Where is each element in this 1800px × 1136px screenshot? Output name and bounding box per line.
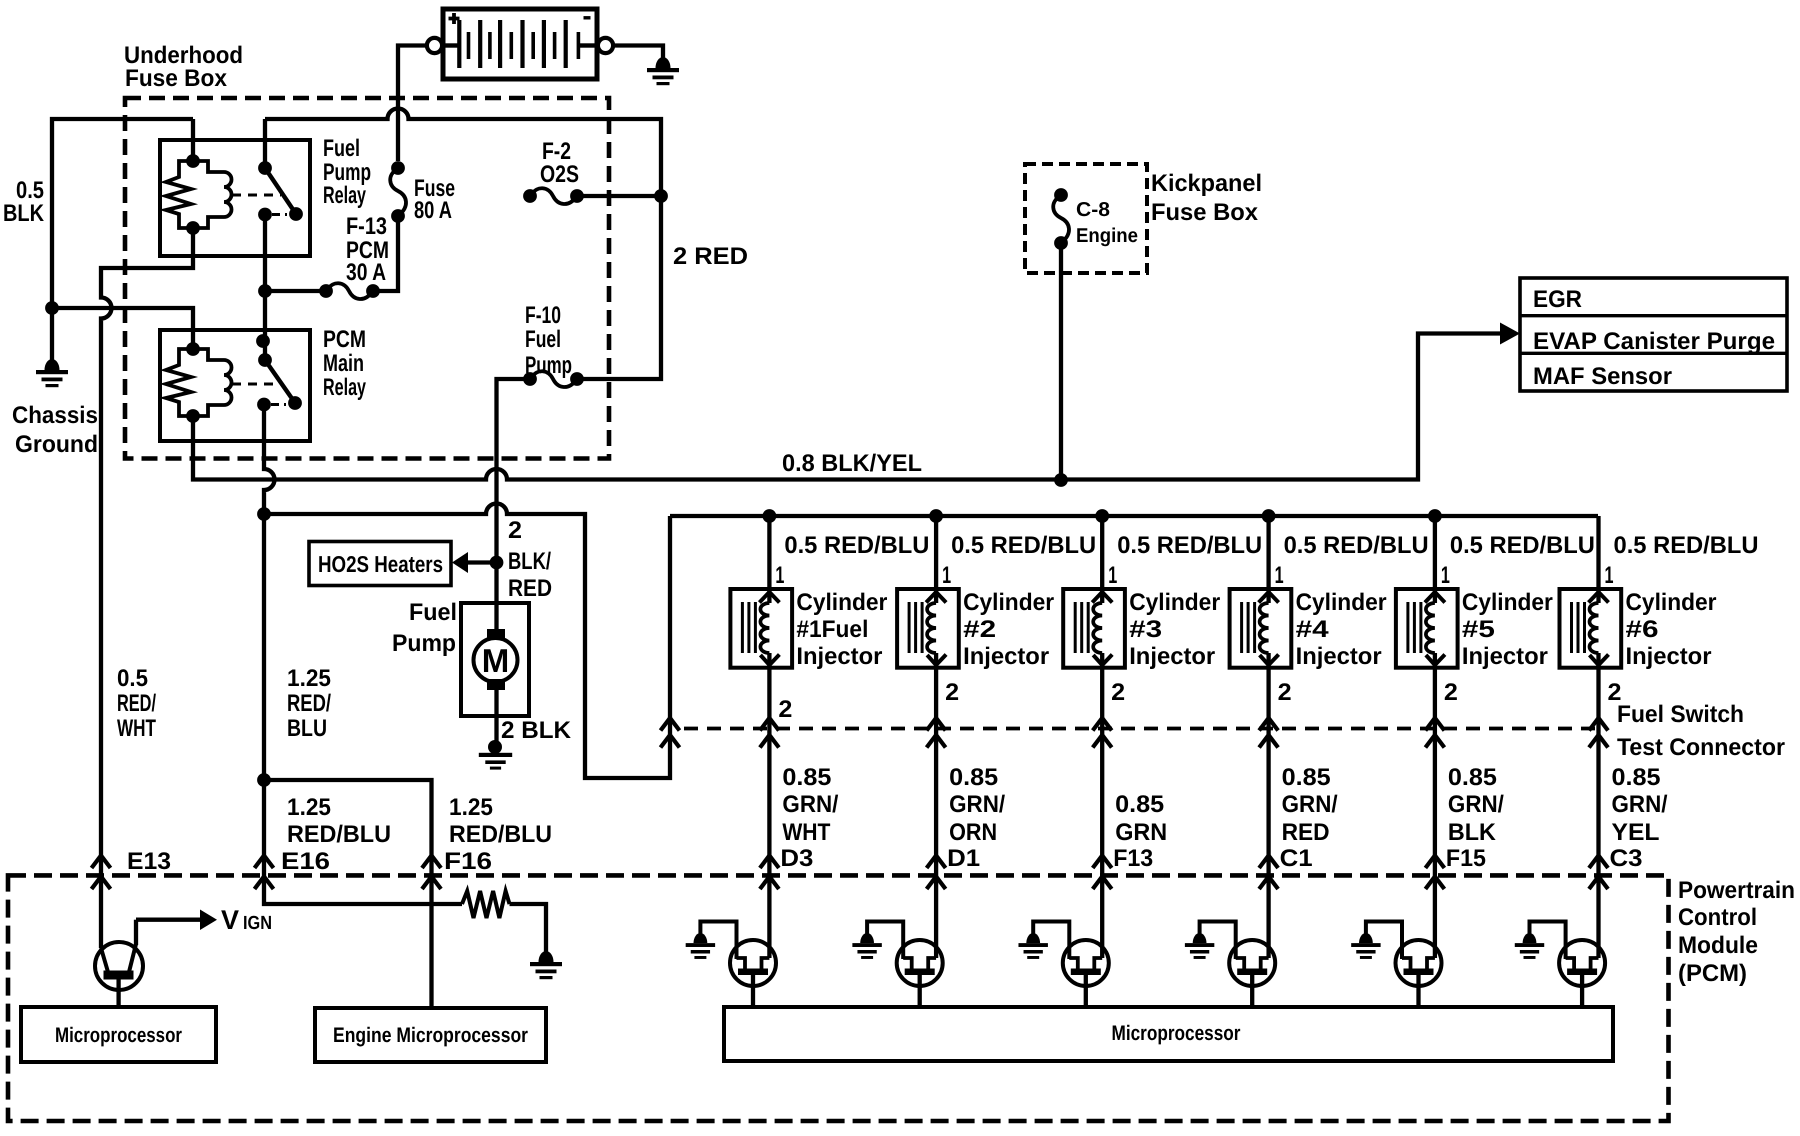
svg-text:D3: D3 [780, 845, 813, 872]
label 0.5 RED/BLU 3 [1117, 532, 1262, 559]
ground transistor Q7 [1515, 933, 1544, 959]
arrow V IGN [200, 910, 217, 931]
svg-text:C-8: C-8 [1076, 199, 1110, 221]
svg-text:0.5: 0.5 [117, 665, 148, 692]
label Cylinder #1Fuel Injector [796, 589, 887, 670]
PCM connector chevrons D3 [760, 856, 779, 890]
svg-text:C1: C1 [1280, 845, 1313, 872]
svg-text:Fuel: Fuel [323, 135, 360, 162]
node chassis junction [45, 301, 59, 315]
svg-text:0.5 RED/BLU: 0.5 RED/BLU [1614, 532, 1759, 559]
svg-text:2: 2 [1278, 679, 1292, 706]
svg-text:GRN/: GRN/ [949, 791, 1005, 818]
label Fuel Switch Test Connector [1617, 701, 1785, 761]
relay K1 Fuel Pump Relay [160, 140, 310, 256]
svg-text:Pump: Pump [392, 630, 456, 657]
underhood fuse box (dashed) [125, 98, 609, 459]
wire relay1 coil bottom to E13 [101, 228, 193, 948]
svg-text:Cylinder: Cylinder [1129, 589, 1220, 616]
svg-text:Relay: Relay [323, 182, 366, 209]
svg-text:#2: #2 [963, 616, 996, 643]
PCM connector chevrons C3 [1589, 856, 1608, 890]
connector chevrons injector 5 [1425, 718, 1444, 748]
svg-text:F-13: F-13 [346, 213, 387, 240]
wire injector 5 feed [1433, 516, 1437, 603]
svg-text:Engine: Engine [1076, 225, 1138, 247]
wire 0.5 BLK [52, 119, 193, 360]
svg-text:RED/BLU: RED/BLU [449, 821, 552, 848]
fuse Fuse 80 A [390, 161, 406, 223]
node injector bus junction 5 [1428, 509, 1442, 523]
transistor Q6 [1366, 922, 1442, 1008]
svg-text:Control: Control [1678, 904, 1757, 931]
svg-text:RED/: RED/ [117, 690, 156, 717]
label 1.25 RED/BLU E16 [281, 794, 391, 875]
svg-text:E16: E16 [281, 848, 330, 875]
wire V IGN [136, 918, 200, 922]
label 0.85 wire C3 [1610, 764, 1668, 872]
svg-text:GRN: GRN [1115, 819, 1167, 846]
label 0.85 wire F13 [1113, 791, 1167, 872]
kickpanel fuse box (dashed) [1025, 164, 1147, 273]
svg-text:0.85: 0.85 [782, 764, 831, 791]
ground transistor Q3 [852, 933, 881, 959]
label F-13 PCM 30 A [346, 213, 389, 286]
svg-text:Fuel: Fuel [525, 326, 561, 353]
svg-text:#3: #3 [1129, 616, 1162, 643]
svg-text:#4: #4 [1296, 616, 1330, 643]
battery + terminal [427, 38, 442, 53]
label C-8 Engine [1076, 199, 1138, 247]
battery [440, 9, 600, 79]
svg-text:0.5 RED/BLU: 0.5 RED/BLU [784, 532, 929, 559]
label 0.5 RED/BLU 1 [784, 532, 929, 559]
label Fuel Pump [392, 599, 457, 657]
label 2 BLK/RED [508, 517, 552, 602]
svg-text:1: 1 [1605, 562, 1614, 589]
transistor Q1 [95, 920, 143, 1008]
label pin 1 injector 3 [1108, 562, 1117, 589]
wire resistor to ground [510, 904, 547, 952]
svg-text:IGN: IGN [243, 913, 272, 934]
svg-text:(PCM): (PCM) [1678, 960, 1747, 987]
fuel switch test connector (dashed) [684, 727, 1600, 731]
label 0.5 RED/BLU 6 [1614, 532, 1759, 559]
node injector bus junction 3 [1095, 509, 1109, 523]
svg-text:Injector: Injector [963, 643, 1049, 670]
svg-text:RED/: RED/ [287, 690, 331, 717]
label 0.5 RED/WHT [117, 665, 156, 742]
transistor Q3 [867, 922, 943, 1008]
label Cylinder #5 Injector [1462, 589, 1553, 670]
wire chassis to relay2 coil [52, 308, 193, 349]
svg-text:Cylinder: Cylinder [963, 589, 1054, 616]
wire injector 3 pin2 down [1100, 653, 1104, 958]
svg-text:BLK: BLK [3, 200, 45, 227]
svg-text:0.85: 0.85 [1612, 764, 1661, 791]
svg-text:Powertrain: Powertrain [1678, 877, 1795, 904]
label Underhood Fuse Box [124, 42, 243, 92]
injector coil Cylinder #3 [1063, 589, 1125, 668]
svg-text:1.25: 1.25 [287, 665, 331, 692]
PCM connector chevrons D1 [927, 856, 946, 890]
label EGR [1533, 286, 1582, 313]
label Cylinder #6 Injector [1626, 589, 1717, 670]
wire test connector left chevron [661, 718, 680, 748]
PCM module box (dashed) [8, 875, 1669, 1121]
label pin 2 injector 5 [1444, 679, 1458, 706]
svg-text:Test Connector: Test Connector [1617, 734, 1785, 761]
svg-text:D1: D1 [947, 845, 980, 872]
label Kickpanel Fuse Box [1151, 170, 1262, 226]
svg-text:0.85: 0.85 [1115, 791, 1164, 818]
label 0.8 BLK/YEL [782, 450, 922, 477]
wire injector 5 pin2 down [1433, 653, 1437, 958]
label 0.85 wire D3 [780, 764, 838, 872]
svg-text:2: 2 [945, 679, 959, 706]
wire E16 to F16 [264, 780, 432, 1008]
PCM connector chevrons E16 [255, 856, 274, 890]
svg-text:1: 1 [775, 562, 784, 589]
wire relay1 coil top [191, 119, 195, 161]
wire injector 4 pin2 down [1266, 653, 1270, 958]
motor M fuel pump [461, 603, 529, 716]
wire fuse80A to F-13 [373, 216, 398, 291]
label 0.5 RED/BLU 4 [1284, 532, 1429, 559]
label 2 RED [673, 243, 748, 270]
node injector bus junction 2 [929, 509, 943, 523]
svg-text:WHT: WHT [782, 819, 830, 846]
wire top feed to F-2/F-10 [265, 109, 661, 380]
svg-text:2: 2 [1444, 679, 1458, 706]
wire injector bus [670, 514, 1598, 518]
svg-text:Fuse Box: Fuse Box [125, 65, 228, 92]
svg-text:2 BLK: 2 BLK [501, 717, 572, 744]
svg-text:RED: RED [1282, 819, 1330, 846]
svg-text:GRN/: GRN/ [1448, 791, 1504, 818]
connector chevrons injector 2 [927, 718, 946, 748]
wire F-10 to fuel pump [497, 379, 531, 630]
svg-text:BLK: BLK [1448, 819, 1497, 846]
resistor R1 [462, 891, 510, 918]
label pin 2 injector 6 [1608, 679, 1622, 706]
wire injector 1 feed [767, 516, 771, 603]
svg-text:Pump: Pump [525, 352, 572, 379]
label 0.85 wire F15 [1446, 764, 1504, 872]
wire injector 3 feed [1100, 516, 1104, 603]
svg-text:EGR: EGR [1533, 286, 1582, 313]
ground chassis [36, 359, 68, 387]
PCM connector chevrons F16 [422, 856, 441, 890]
arrow to EVAP [1500, 323, 1520, 345]
svg-text:Fuel Switch: Fuel Switch [1617, 701, 1744, 728]
svg-text:Microprocessor: Microprocessor [55, 1024, 182, 1047]
wire injector 2 pin2 down [934, 653, 938, 958]
label pin 1 injector 5 [1441, 562, 1450, 589]
fuse F-10 Fuel Pump [523, 371, 584, 387]
relay K2 PCM Main Relay [160, 330, 310, 441]
svg-text:E13: E13 [127, 848, 171, 875]
label pin 1 injector 4 [1275, 562, 1284, 589]
label E13 [127, 848, 171, 875]
svg-text:Fuse Box: Fuse Box [1151, 199, 1259, 226]
svg-text:Ground: Ground [15, 431, 98, 458]
svg-text:O2S: O2S [540, 161, 579, 188]
svg-text:C3: C3 [1610, 845, 1643, 872]
wire injector 4 feed [1266, 516, 1270, 603]
node injector bus junction 1 [763, 509, 777, 523]
svg-text:0.5 RED/BLU: 0.5 RED/BLU [1117, 532, 1262, 559]
wire injector 1 pin2 down [767, 653, 771, 958]
svg-text:F15: F15 [1446, 845, 1486, 872]
svg-text:Cylinder: Cylinder [1462, 589, 1553, 616]
box Engine Microprocessor [315, 1008, 546, 1062]
svg-text:Fuel: Fuel [409, 599, 457, 626]
svg-text:YEL: YEL [1612, 819, 1660, 846]
PCM connector chevrons C1 [1259, 856, 1278, 890]
svg-text:GRN/: GRN/ [1282, 791, 1338, 818]
node F-13 junction [258, 284, 272, 298]
svg-text:30 A: 30 A [346, 259, 386, 286]
svg-text:V: V [221, 905, 239, 935]
svg-text:ORN: ORN [949, 819, 997, 846]
injector coil Cylinder #2 [897, 589, 959, 668]
node F-2 junction [654, 189, 668, 203]
label pin 2 injector 4 [1278, 679, 1292, 706]
transistor Q2 [700, 922, 776, 1008]
arrow HO2S [452, 552, 492, 573]
svg-text:0.85: 0.85 [1282, 764, 1331, 791]
ground fuel pump [479, 740, 512, 770]
svg-text:Kickpanel: Kickpanel [1151, 170, 1262, 197]
svg-text:Microprocessor: Microprocessor [1112, 1022, 1241, 1045]
box Microprocessor (left) [21, 1007, 216, 1062]
svg-text:1: 1 [1441, 562, 1450, 589]
svg-text:0.5 RED/BLU: 0.5 RED/BLU [951, 532, 1096, 559]
svg-text:GRN/: GRN/ [782, 791, 838, 818]
svg-text:PCM: PCM [323, 326, 366, 353]
injector coil Cylinder #4 [1230, 589, 1292, 668]
label pin 1 injector 2 [942, 562, 951, 589]
node HO2S junction [490, 556, 504, 570]
PCM connector chevrons F13 [1093, 856, 1112, 890]
svg-text:1: 1 [1275, 562, 1284, 589]
svg-text:M: M [482, 642, 510, 679]
wire relay2 switch down to PCM [264, 405, 462, 905]
svg-text:Injector: Injector [1129, 643, 1215, 670]
label V IGN [221, 905, 272, 935]
box Microprocessor (main) [724, 1007, 1613, 1061]
svg-text:2: 2 [778, 696, 792, 723]
svg-text:RED/BLU: RED/BLU [287, 821, 391, 848]
label pin 1 injector 6 [1605, 562, 1614, 589]
fuse F-2 O2S [523, 188, 584, 204]
svg-text:2: 2 [1111, 679, 1125, 706]
svg-text:MAF Sensor: MAF Sensor [1533, 363, 1672, 390]
svg-text:Injector: Injector [1462, 643, 1548, 670]
node E16 junction [257, 773, 271, 787]
svg-text:Main: Main [323, 350, 364, 377]
wire injector 6 pin2 down [1596, 653, 1600, 958]
transistor Q4 [1033, 922, 1109, 1008]
svg-text:Module: Module [1678, 932, 1758, 959]
svg-text:#6: #6 [1626, 616, 1659, 643]
svg-text:EVAP Canister Purge: EVAP Canister Purge [1533, 328, 1775, 355]
wire 0.8 BLK/YEL [193, 334, 1500, 480]
svg-text:#5: #5 [1462, 616, 1495, 643]
ground transistor Q4 [1018, 933, 1047, 959]
svg-text:BLK/: BLK/ [508, 548, 551, 575]
label Cylinder #4 Injector [1296, 589, 1387, 670]
box HO2S Heaters [309, 542, 451, 586]
svg-text:Relay: Relay [323, 374, 366, 401]
injector coil Cylinder #6 [1560, 589, 1622, 668]
wire battery to ground [613, 46, 663, 59]
wire relay2 output to test connector loop [264, 504, 670, 779]
svg-text:Injector: Injector [1626, 643, 1712, 670]
wire relay1 switch to relay2 [263, 215, 267, 361]
label Powertrain Control Module (PCM) [1678, 877, 1795, 987]
svg-text:HO2S Heaters: HO2S Heaters [318, 551, 443, 577]
svg-text:80 A: 80 A [414, 197, 452, 224]
node C-8 junction [1054, 473, 1068, 487]
ground transistor Q2 [686, 933, 715, 959]
label pin 1 injector 1 [775, 562, 784, 589]
injector coil Cylinder #1Fuel [730, 589, 792, 668]
label EVAP Canister Purge [1533, 328, 1775, 355]
svg-text:1: 1 [942, 562, 951, 589]
fuse F-13 PCM 30 A [319, 283, 380, 299]
label Cylinder #3 Injector [1129, 589, 1220, 670]
svg-text:Cylinder: Cylinder [1296, 589, 1387, 616]
svg-text:Cylinder: Cylinder [1626, 589, 1717, 616]
label pin 2 injector 2 [945, 679, 959, 706]
label F-2 O2S [540, 138, 579, 188]
svg-text:F-10: F-10 [525, 302, 561, 329]
svg-text:0.5 RED/BLU: 0.5 RED/BLU [1284, 532, 1429, 559]
svg-text:RED: RED [508, 575, 552, 602]
svg-text:F13: F13 [1113, 845, 1153, 872]
label 0.85 wire D1 [947, 764, 1005, 872]
label PCM Main Relay [323, 326, 366, 401]
connector chevrons injector 4 [1259, 718, 1278, 748]
svg-text:0.85: 0.85 [949, 764, 998, 791]
wire injector 2 feed [934, 516, 938, 603]
label pin 2 injector 1 [778, 696, 792, 723]
label MAF Sensor [1533, 363, 1672, 390]
wire battery to fuse 80A [398, 46, 427, 162]
label 2 BLK [501, 717, 572, 744]
wire fuel pump to ground [494, 690, 498, 742]
label Fuel Pump Relay [323, 135, 371, 209]
wire F-13 to relay junction [265, 289, 326, 293]
label 0.85 wire C1 [1280, 764, 1338, 872]
battery - terminal [598, 38, 613, 53]
box EGR/EVAP/MAF [1520, 278, 1787, 391]
svg-text:Cylinder: Cylinder [796, 589, 887, 616]
svg-text:0.5 RED/BLU: 0.5 RED/BLU [1450, 532, 1595, 559]
ground battery [647, 57, 679, 85]
label F-10 Fuel Pump [525, 302, 572, 379]
label 0.5 BLK [3, 177, 45, 227]
svg-text:2 RED: 2 RED [673, 243, 748, 270]
connector chevrons injector 1 [760, 718, 779, 748]
svg-text:1.25: 1.25 [287, 794, 331, 821]
ground resistor [530, 951, 562, 979]
node relay2 output junction [257, 507, 271, 521]
label 1.25 RED/BLU F16 [444, 794, 552, 875]
svg-text:0.85: 0.85 [1448, 764, 1497, 791]
label 1.25 RED/BLU (E16 upper) [287, 665, 331, 742]
svg-text:1.25: 1.25 [449, 794, 493, 821]
svg-text:BLU: BLU [287, 715, 327, 742]
ground transistor Q6 [1351, 933, 1380, 959]
wire C-8 down [1059, 243, 1063, 480]
svg-text:F16: F16 [444, 848, 492, 875]
svg-text:0.8 BLK/YEL: 0.8 BLK/YEL [782, 450, 922, 477]
svg-text:#1Fuel: #1Fuel [796, 616, 868, 643]
wire F-2 to vertical [577, 194, 661, 198]
label pin 2 injector 3 [1111, 679, 1125, 706]
svg-text:WHT: WHT [117, 715, 156, 742]
svg-text:GRN/: GRN/ [1612, 791, 1668, 818]
label 0.5 RED/BLU 2 [951, 532, 1096, 559]
label Cylinder #2 Injector [963, 589, 1054, 670]
wire relay1 switch top [263, 119, 267, 168]
svg-text:Chassis: Chassis [12, 402, 98, 429]
svg-text:Injector: Injector [796, 643, 882, 670]
svg-text:2: 2 [508, 517, 522, 544]
PCM connector chevrons F15 [1425, 856, 1444, 890]
transistor Q7 [1530, 922, 1606, 1008]
label Chassis Ground [12, 402, 98, 458]
svg-text:Engine Microprocessor: Engine Microprocessor [333, 1024, 528, 1047]
node injector bus junction 4 [1262, 509, 1276, 523]
label 0.5 RED/BLU 5 [1450, 532, 1595, 559]
wire injector 6 feed [1596, 516, 1600, 603]
injector coil Cylinder #5 [1396, 589, 1458, 668]
PCM connector chevrons E13 [92, 856, 111, 890]
svg-text:1: 1 [1108, 562, 1117, 589]
connector chevrons injector 6 [1589, 718, 1608, 748]
ground transistor Q5 [1185, 933, 1214, 959]
connector chevrons injector 3 [1093, 718, 1112, 748]
svg-text:Injector: Injector [1296, 643, 1382, 670]
transistor Q5 [1200, 922, 1276, 1008]
fuse C-8 Engine [1053, 188, 1069, 250]
label Fuse 80 A [414, 175, 455, 224]
